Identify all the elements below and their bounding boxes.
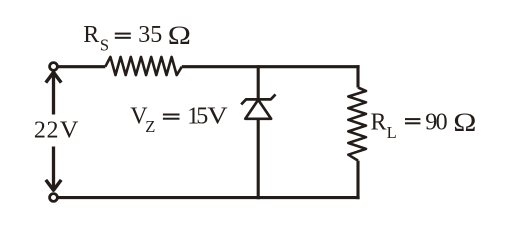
svg-text:S: S — [100, 35, 109, 54]
resistor R2 (RL = 90 ohm) vertical zigzag — [348, 88, 366, 161]
svg-text:L: L — [387, 123, 397, 142]
svg-text:0: 0 — [436, 110, 448, 136]
svg-text:V: V — [207, 103, 227, 130]
svg-text:Ω: Ω — [168, 21, 191, 50]
wire left branch upper shaft of source arrow — [52, 72, 55, 114]
wire bottom rail — [57, 196, 360, 199]
svg-text:V: V — [60, 117, 79, 143]
wire top from RS to top-right corner — [182, 65, 360, 68]
wire zener branch lower segment — [257, 119, 260, 199]
wire left branch lower shaft of source arrow — [52, 147, 55, 191]
svg-text:R: R — [371, 110, 387, 136]
arrowhead up at source top — [46, 72, 61, 82]
wire top from source terminal to resistor RS — [57, 65, 105, 68]
svg-text:2: 2 — [34, 118, 46, 144]
label zener voltage VZ — [130, 103, 227, 137]
resistor R1 (RS = 35 ohm) zigzag — [105, 57, 182, 75]
wire right branch lower segment — [356, 161, 359, 200]
label RL value — [371, 108, 477, 142]
svg-text:Ω: Ω — [453, 108, 476, 137]
svg-text:R: R — [83, 22, 99, 48]
terminal circle bottom — [50, 194, 58, 202]
wire zener branch upper segment — [257, 65, 260, 100]
svg-text:Z: Z — [145, 117, 155, 136]
arrowhead down at source bottom — [46, 180, 61, 190]
label RS value — [83, 21, 191, 54]
svg-text:35: 35 — [138, 22, 162, 48]
svg-text:2: 2 — [47, 118, 59, 144]
terminal circle top — [50, 63, 58, 71]
wire right branch upper segment — [356, 65, 359, 87]
zener diode D1 anode triangle — [245, 100, 271, 119]
zener diode D1 cathode bar with bent ends — [241, 94, 275, 104]
label source voltage 22V — [34, 117, 79, 143]
